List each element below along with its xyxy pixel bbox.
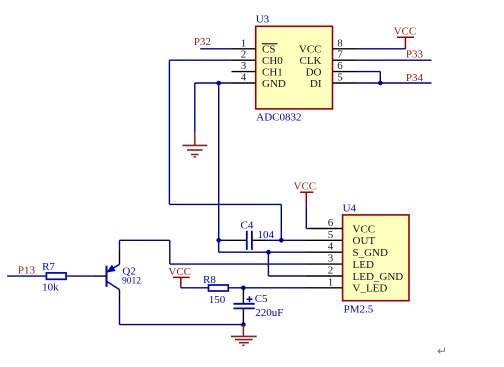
- junction pin4: [216, 81, 221, 86]
- svg-text:U4: U4: [343, 202, 357, 214]
- junction S_GND: [266, 250, 271, 255]
- svg-text:220uF: 220uF: [255, 307, 283, 319]
- svg-text:LED_GND: LED_GND: [353, 271, 404, 283]
- wire CH0 drop to OUT: [280, 204, 282, 240]
- svg-text:2: 2: [241, 49, 247, 61]
- pin 3 stub U3: [232, 71, 256, 73]
- svg-text:1: 1: [241, 37, 247, 49]
- svg-text:3: 3: [241, 60, 247, 72]
- svg-text:150: 150: [209, 294, 226, 306]
- svg-text:4: 4: [328, 241, 334, 253]
- plus sign C5: [247, 296, 253, 302]
- wire emitter top horizontal: [120, 239, 170, 241]
- wire drop to LED_GND: [267, 252, 269, 276]
- svg-text:CH1: CH1: [262, 66, 283, 78]
- wire LED row: [170, 263, 307, 265]
- emitter lead up: [119, 250, 121, 264]
- pin 1 stub U4: [307, 287, 343, 289]
- pin 5 stub U3: [333, 82, 357, 84]
- wire pin4 GND horizontal: [195, 82, 232, 84]
- wire VCC to pin6 U4: [305, 206, 307, 229]
- junction OUT: [279, 238, 284, 243]
- wire to ground 1: [194, 83, 196, 132]
- pin 5 stub U4: [307, 239, 343, 241]
- junction C4 left: [216, 238, 221, 243]
- svg-text:U3: U3: [256, 13, 270, 25]
- C5 pin bottom: [242, 308, 244, 324]
- svg-text:C4: C4: [241, 219, 254, 231]
- chip U4 body: [343, 215, 409, 301]
- junction DO-DI: [378, 81, 383, 86]
- pin 3 stub U4: [307, 263, 343, 265]
- pin 6 stub U4: [311, 228, 343, 230]
- collector lead down: [119, 290, 121, 303]
- power VCC bar 3: [173, 277, 190, 287]
- svg-text:4: 4: [241, 72, 247, 84]
- wire collector bottom: [120, 324, 244, 326]
- svg-text:3: 3: [328, 253, 334, 265]
- transistor Q2: [107, 264, 120, 289]
- svg-text:P32: P32: [194, 36, 211, 48]
- wire CH0 middle horizontal: [169, 203, 281, 205]
- wire S_GND corner: [219, 251, 307, 253]
- svg-text:VCC: VCC: [394, 25, 417, 37]
- wire GND vertical: [218, 83, 220, 252]
- power VCC bar 2: [300, 192, 313, 206]
- junction C5 bottom: [241, 322, 246, 327]
- wire pin8 to VCC: [357, 48, 406, 50]
- svg-text:CH0: CH0: [262, 55, 283, 67]
- pin 1 stub U3: [232, 48, 256, 50]
- wire P13 to R7: [7, 275, 46, 277]
- svg-text:R8: R8: [203, 274, 216, 286]
- wire pin7 P33: [357, 59, 432, 61]
- svg-text:P13: P13: [18, 264, 36, 276]
- svg-text:CLK: CLK: [300, 55, 322, 67]
- wire pin6 DO: [357, 71, 381, 73]
- pin 4 stub U4: [307, 251, 343, 253]
- svg-text:P33: P33: [406, 49, 424, 61]
- pin 2 stub U3: [232, 59, 256, 61]
- svg-text:S_GND: S_GND: [353, 247, 389, 259]
- svg-text:P34: P34: [406, 72, 424, 84]
- svg-text:10k: 10k: [42, 282, 59, 294]
- svg-text:C5: C5: [255, 293, 268, 305]
- svg-text:OUT: OUT: [353, 235, 376, 247]
- ground symbol G2: [231, 325, 257, 346]
- svg-text:VCC: VCC: [299, 44, 322, 56]
- svg-text:LED: LED: [353, 259, 374, 271]
- wire DO drop: [379, 72, 381, 83]
- svg-text:VCC: VCC: [168, 266, 191, 278]
- svg-text:5: 5: [328, 229, 334, 241]
- wire VCC to R8: [181, 287, 209, 289]
- wire pin2 CH0 horizontal: [169, 59, 231, 61]
- resistor R8: [209, 285, 229, 291]
- wire CH0 vertical left: [168, 60, 170, 204]
- svg-text:V_LED: V_LED: [353, 283, 388, 295]
- svg-text:R7: R7: [42, 261, 55, 273]
- svg-text:5: 5: [337, 72, 343, 84]
- svg-text:104: 104: [258, 229, 275, 241]
- svg-text:7: 7: [337, 49, 343, 61]
- svg-text:6: 6: [337, 60, 343, 72]
- junction C5 top: [241, 286, 246, 291]
- svg-text:GND: GND: [262, 78, 286, 90]
- pin 6 stub U3: [333, 71, 357, 73]
- wire OUT left of C4: [219, 239, 228, 241]
- C5 pin top: [242, 288, 244, 304]
- resistor R7: [46, 273, 66, 279]
- wire R8 to V_LED: [228, 287, 306, 289]
- svg-text:ADC0832: ADC0832: [256, 112, 301, 124]
- svg-text:↵: ↵: [437, 344, 447, 358]
- svg-text:VCC: VCC: [294, 181, 317, 193]
- wire emitter right vertical: [169, 240, 171, 264]
- wire OUT right of C4: [252, 239, 267, 241]
- capacitor C4: [247, 231, 252, 250]
- svg-text:VCC: VCC: [353, 223, 376, 235]
- svg-text:9012: 9012: [122, 276, 141, 286]
- svg-text:DO: DO: [306, 66, 322, 78]
- pin 2 stub U4: [307, 275, 343, 277]
- ground symbol G1: [183, 132, 208, 157]
- chip U3 body: [256, 26, 333, 109]
- svg-text:1: 1: [328, 276, 334, 288]
- svg-text:8: 8: [337, 37, 343, 49]
- svg-text:CS: CS: [262, 44, 275, 56]
- wire R7 to base: [66, 275, 94, 277]
- pin 8 stub U3: [333, 48, 357, 50]
- pin 4 stub U3: [232, 82, 256, 84]
- pin 7 stub U3: [333, 59, 357, 61]
- svg-text:PM2.5: PM2.5: [344, 303, 374, 315]
- svg-text:DI: DI: [310, 78, 322, 90]
- svg-text:2: 2: [328, 265, 334, 277]
- pin name CS with overline: [262, 44, 278, 56]
- wire P32 to pin1: [200, 48, 231, 50]
- svg-text:6: 6: [328, 217, 334, 229]
- power VCC bar 1: [397, 37, 414, 49]
- wire pin5 P34: [357, 82, 432, 84]
- capacitor C5: [234, 304, 255, 309]
